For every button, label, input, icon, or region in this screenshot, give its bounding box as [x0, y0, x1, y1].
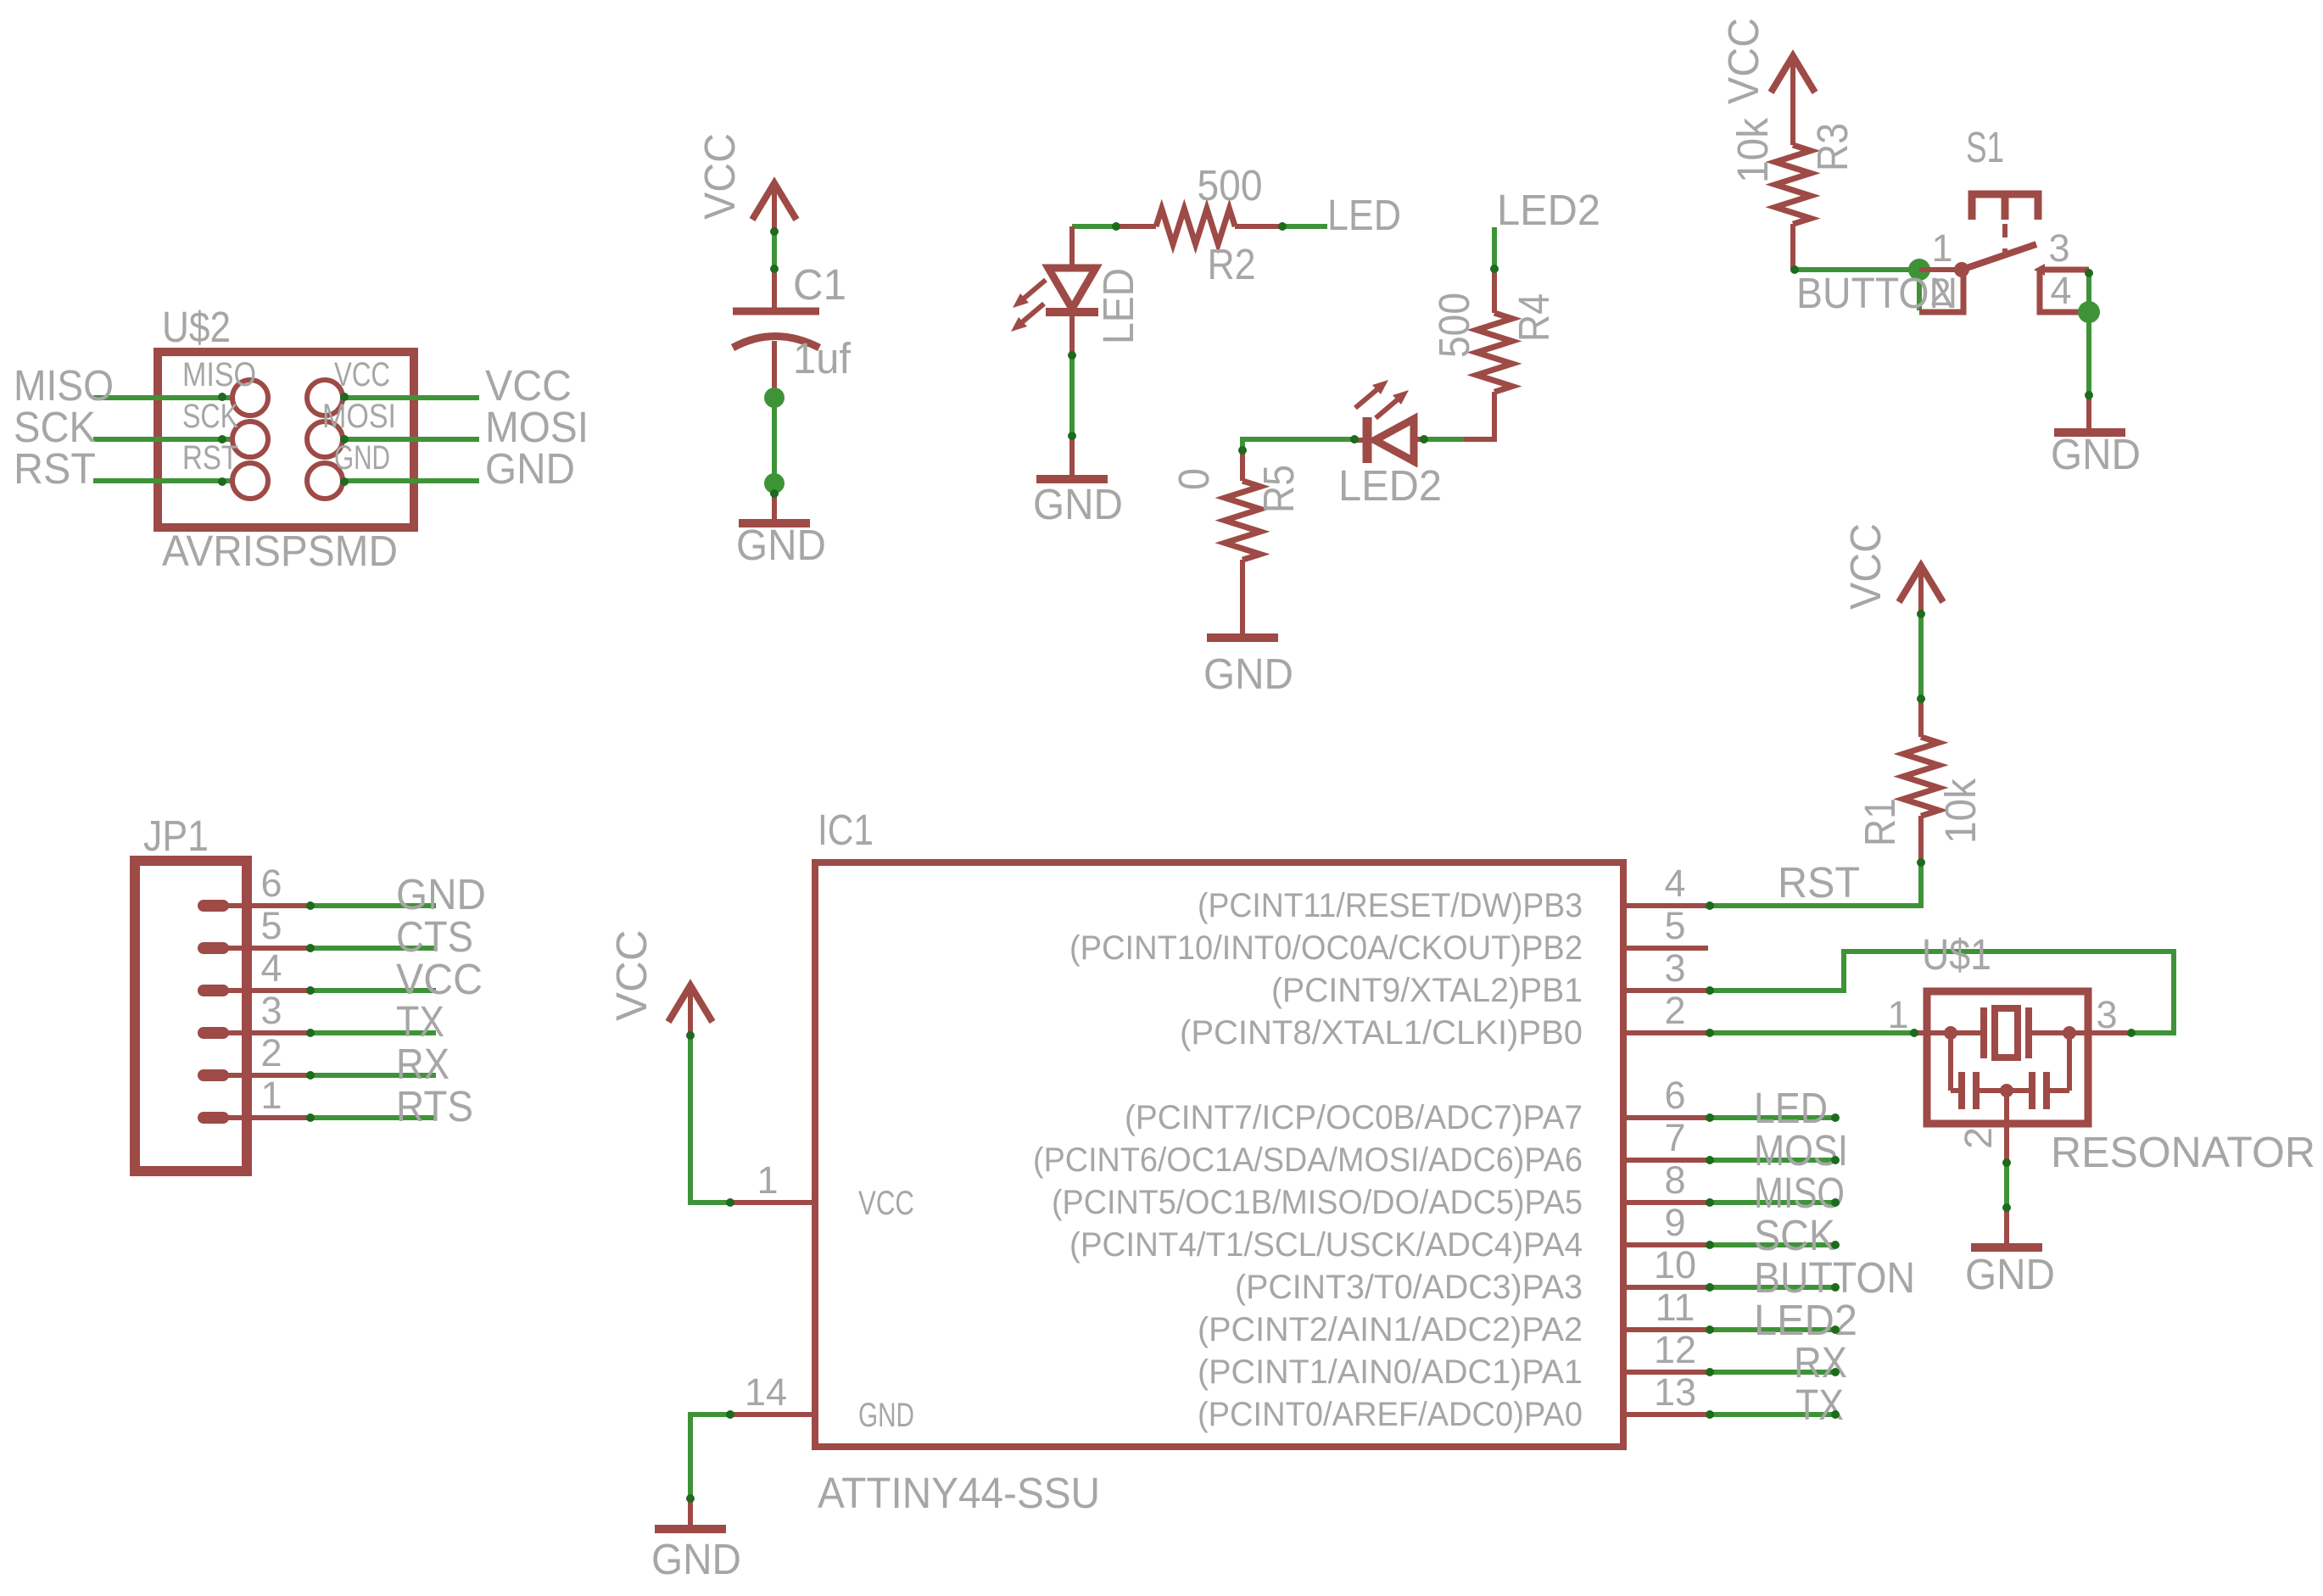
svg-text:S1: S1	[1966, 123, 2004, 171]
svg-text:10k: 10k	[1936, 778, 1985, 844]
svg-text:TX: TX	[396, 997, 444, 1046]
svg-text:GND: GND	[1033, 480, 1123, 528]
svg-text:R3: R3	[1808, 123, 1857, 171]
svg-text:VCC: VCC	[695, 133, 744, 220]
svg-text:3: 3	[2096, 993, 2117, 1036]
svg-text:RST: RST	[1778, 858, 1860, 907]
svg-text:3: 3	[260, 989, 282, 1032]
svg-text:1: 1	[260, 1074, 282, 1117]
svg-text:VCC: VCC	[607, 929, 656, 1021]
svg-text:GND: GND	[396, 870, 486, 918]
svg-text:GND: GND	[858, 1397, 914, 1434]
svg-text:AVRISPSMD: AVRISPSMD	[162, 527, 398, 575]
svg-text:3: 3	[1664, 946, 1685, 990]
svg-text:LED: LED	[1754, 1084, 1828, 1132]
svg-text:RESONATOR: RESONATOR	[2051, 1128, 2315, 1176]
svg-text:U$1: U$1	[1922, 930, 1991, 979]
svg-text:RST: RST	[14, 444, 96, 493]
svg-text:LED: LED	[1094, 268, 1142, 344]
svg-text:C1: C1	[793, 260, 846, 309]
svg-text:(PCINT9/XTAL2)PB1: (PCINT9/XTAL2)PB1	[1271, 972, 1583, 1009]
svg-text:2: 2	[1957, 1127, 2000, 1149]
svg-text:1: 1	[1887, 993, 1908, 1036]
svg-text:BUTTON: BUTTON	[1796, 269, 1957, 317]
svg-text:GND: GND	[1203, 650, 1293, 698]
svg-text:R4: R4	[1510, 293, 1558, 342]
svg-text:4: 4	[260, 946, 282, 990]
svg-text:MOSI: MOSI	[1754, 1126, 1848, 1175]
svg-text:(PCINT3/T0/ADC3)PA3: (PCINT3/T0/ADC3)PA3	[1235, 1269, 1583, 1306]
svg-text:5: 5	[1664, 904, 1685, 947]
svg-text:LED2: LED2	[1754, 1296, 1857, 1344]
svg-text:MISO: MISO	[182, 356, 256, 393]
svg-text:VCC: VCC	[1719, 18, 1767, 104]
svg-text:RX: RX	[1794, 1338, 1847, 1387]
svg-text:(PCINT10/INT0/OC0A/CKOUT)PB2: (PCINT10/INT0/OC0A/CKOUT)PB2	[1069, 929, 1583, 967]
svg-text:(PCINT8/XTAL1/CLKI)PB0: (PCINT8/XTAL1/CLKI)PB0	[1180, 1014, 1583, 1052]
svg-text:LED: LED	[1327, 191, 1401, 239]
svg-text:GND: GND	[2051, 430, 2141, 478]
svg-text:0: 0	[1170, 468, 1218, 490]
svg-text:12: 12	[1654, 1328, 1696, 1371]
svg-text:LED2: LED2	[1497, 186, 1600, 234]
svg-text:ATTINY44-SSU: ATTINY44-SSU	[818, 1469, 1100, 1517]
svg-text:5: 5	[260, 904, 282, 947]
svg-text:1: 1	[757, 1158, 778, 1202]
svg-text:6: 6	[260, 862, 282, 905]
svg-text:1uf: 1uf	[793, 334, 852, 382]
svg-text:GND: GND	[736, 521, 826, 569]
svg-text:TX: TX	[1795, 1381, 1844, 1429]
svg-text:U$2: U$2	[162, 303, 231, 351]
svg-text:VCC: VCC	[1841, 523, 1890, 610]
svg-text:13: 13	[1654, 1370, 1696, 1414]
svg-text:R1: R1	[1856, 798, 1904, 846]
svg-text:LED2: LED2	[1338, 461, 1442, 510]
svg-text:(PCINT11/RESET/DW)PB3: (PCINT11/RESET/DW)PB3	[1198, 887, 1583, 924]
svg-text:500: 500	[1430, 293, 1478, 358]
svg-text:SCK: SCK	[1754, 1211, 1835, 1259]
svg-text:VCC: VCC	[858, 1185, 914, 1222]
svg-text:4: 4	[1664, 862, 1685, 905]
svg-text:VCC: VCC	[334, 356, 390, 393]
svg-text:500: 500	[1198, 161, 1263, 209]
svg-text:7: 7	[1664, 1116, 1685, 1159]
svg-text:RTS: RTS	[396, 1082, 473, 1130]
svg-text:SCK: SCK	[182, 398, 238, 435]
svg-text:GND: GND	[334, 439, 390, 477]
svg-text:(PCINT7/ICP/OC0B/ADC7)PA7: (PCINT7/ICP/OC0B/ADC7)PA7	[1125, 1099, 1583, 1136]
svg-text:CTS: CTS	[396, 912, 473, 961]
svg-text:4: 4	[2050, 269, 2071, 312]
svg-text:MISO: MISO	[1754, 1169, 1845, 1217]
svg-text:(PCINT0/AREF/ADC0)PA0: (PCINT0/AREF/ADC0)PA0	[1198, 1396, 1583, 1433]
svg-text:GND: GND	[485, 444, 575, 493]
svg-text:MOSI: MOSI	[322, 398, 396, 435]
svg-text:R2: R2	[1208, 240, 1256, 288]
svg-text:14: 14	[745, 1370, 787, 1414]
svg-text:GND: GND	[651, 1535, 741, 1583]
svg-text:1: 1	[1931, 226, 1952, 270]
svg-text:2: 2	[260, 1031, 282, 1074]
svg-text:RX: RX	[396, 1040, 450, 1088]
svg-text:RST: RST	[182, 439, 238, 477]
svg-text:11: 11	[1656, 1286, 1695, 1329]
svg-text:VCC: VCC	[396, 955, 483, 1003]
svg-text:10k: 10k	[1728, 118, 1777, 183]
svg-text:9: 9	[1664, 1201, 1685, 1244]
svg-text:8: 8	[1664, 1158, 1685, 1202]
svg-text:BUTTON: BUTTON	[1754, 1253, 1915, 1302]
svg-text:JP1: JP1	[143, 812, 209, 860]
svg-text:10: 10	[1654, 1243, 1696, 1286]
svg-text:3: 3	[2048, 226, 2069, 270]
svg-text:GND: GND	[1965, 1250, 2055, 1298]
svg-text:(PCINT6/OC1A/SDA/MOSI/ADC6)PA6: (PCINT6/OC1A/SDA/MOSI/ADC6)PA6	[1033, 1141, 1583, 1179]
svg-text:(PCINT5/OC1B/MISO/DO/ADC5)PA5: (PCINT5/OC1B/MISO/DO/ADC5)PA5	[1052, 1184, 1583, 1221]
svg-text:(PCINT4/T1/SCL/USCK/ADC4)PA4: (PCINT4/T1/SCL/USCK/ADC4)PA4	[1069, 1226, 1583, 1264]
svg-text:6: 6	[1664, 1074, 1685, 1117]
svg-text:IC1: IC1	[818, 806, 874, 854]
svg-text:R5: R5	[1254, 465, 1303, 513]
svg-text:(PCINT1/AIN0/ADC1)PA1: (PCINT1/AIN0/ADC1)PA1	[1198, 1353, 1583, 1391]
svg-text:(PCINT2/AIN1/ADC2)PA2: (PCINT2/AIN1/ADC2)PA2	[1198, 1311, 1583, 1348]
svg-text:2: 2	[1664, 989, 1685, 1032]
